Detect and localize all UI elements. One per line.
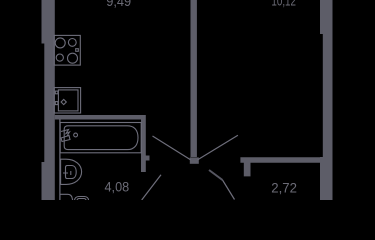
burner big bottom-right [68, 53, 78, 63]
toilet (cut by bottom edge) [60, 194, 89, 200]
tub drain [74, 133, 78, 137]
svg-text:2,72: 2,72 [271, 180, 297, 195]
bathtub [60, 123, 141, 153]
burner small bottom-left [56, 54, 63, 61]
door leaf loggia [209, 170, 223, 180]
bathroom inner wall line [59, 119, 61, 200]
wall center divider [191, 0, 197, 157]
sink diamond [61, 99, 66, 104]
washbasin [61, 159, 82, 184]
burner med top-right [68, 39, 76, 47]
basin faucet cross [63, 171, 71, 176]
hinge mark top [55, 91, 58, 94]
wall center divider end block [190, 157, 199, 163]
wall kitchen/bath divider with hallway return and tick [55, 115, 150, 172]
burner big top-left [55, 38, 65, 48]
wall loggia T [240, 157, 321, 176]
wall right exterior [320, 0, 333, 200]
svg-text:9,49: 9,49 [106, 0, 131, 9]
wall left exterior [42, 0, 55, 200]
door leaf V left [153, 136, 191, 160]
door leaf V right [198, 135, 238, 160]
hinge mark bottom [55, 102, 58, 105]
door leaf loggia lower [223, 180, 235, 200]
stove unit [54, 35, 80, 65]
svg-text:10,12: 10,12 [271, 0, 296, 9]
sink unit [54, 88, 80, 113]
tub faucet [61, 130, 70, 142]
knob square [76, 49, 79, 52]
svg-text:4,08: 4,08 [105, 180, 130, 195]
door leaf bathroom [142, 175, 161, 200]
